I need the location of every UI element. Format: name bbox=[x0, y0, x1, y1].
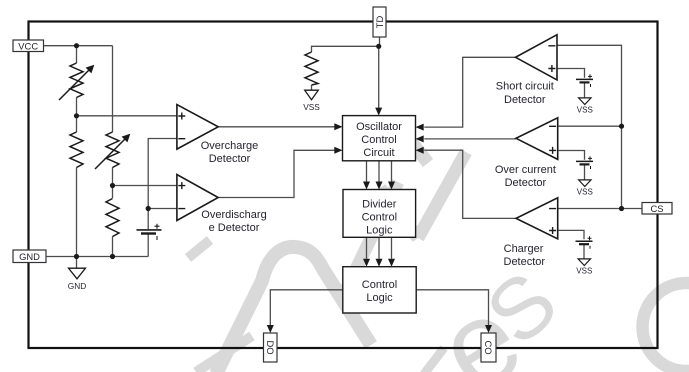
wire short circuit battery to VSS bbox=[584, 82, 586, 97]
wire VCC to column B corner bbox=[44, 45, 113, 47]
block divider control logic bbox=[343, 190, 416, 238]
svg-text:GND: GND bbox=[68, 281, 86, 291]
wire column A bottom bbox=[76, 168, 78, 257]
svg-text:Detector: Detector bbox=[505, 177, 547, 189]
svg-text:Control: Control bbox=[361, 134, 396, 146]
ground VSS (short circuit) bbox=[579, 98, 591, 105]
svg-text:Detector: Detector bbox=[209, 153, 251, 165]
svg-text:Logic: Logic bbox=[366, 225, 393, 237]
svg-text:Divider: Divider bbox=[362, 199, 397, 211]
wire overdischarge output bbox=[218, 150, 335, 197]
svg-text:VSS: VSS bbox=[303, 102, 320, 112]
resistor R3 bbox=[305, 52, 318, 85]
pin DO bbox=[264, 333, 278, 362]
arrow div-ctl 2 bbox=[376, 259, 383, 267]
wire column A mid bbox=[76, 98, 78, 133]
svg-text:GND: GND bbox=[19, 251, 40, 262]
battery B4 (charger) bbox=[576, 236, 593, 249]
block oscillator control circuit bbox=[343, 116, 416, 161]
svg-text:Control: Control bbox=[362, 279, 397, 291]
op-amp U3 short circuit bbox=[516, 35, 558, 80]
wire GND rail bbox=[46, 256, 148, 258]
svg-text:CS: CS bbox=[650, 203, 663, 214]
watermark stroke tip bbox=[188, 240, 210, 258]
resistor R1 bbox=[70, 132, 83, 168]
wire column B bottom bbox=[112, 237, 114, 257]
wire TD to R3 bbox=[312, 46, 379, 52]
svg-text:Oscillator: Oscillator bbox=[356, 121, 402, 133]
wire short circuit + input bbox=[557, 69, 585, 78]
svg-text:Detector: Detector bbox=[504, 94, 546, 106]
ground VSS (over current) bbox=[579, 180, 591, 187]
svg-text:CO: CO bbox=[483, 340, 494, 354]
arrow overdischarge to osc bbox=[334, 147, 342, 154]
ground GND symbol bbox=[69, 268, 86, 279]
op-amp U2 overdischarge bbox=[177, 175, 218, 221]
svg-text:Logic: Logic bbox=[366, 292, 393, 304]
wire charger battery to VSS bbox=[583, 244, 585, 259]
arrow overcharge to osc bbox=[334, 123, 342, 130]
node colC mid bbox=[146, 206, 151, 211]
pin CS bbox=[642, 203, 672, 215]
pin GND bbox=[13, 250, 46, 263]
wire over current battery to VSS bbox=[584, 164, 586, 179]
wire divider to control 2 bbox=[378, 237, 380, 258]
wire overdischarge - input bbox=[148, 208, 177, 210]
wire oscillator to divider 2 bbox=[378, 161, 380, 182]
svg-text:VSS: VSS bbox=[577, 188, 593, 197]
node colA mid bbox=[74, 113, 79, 118]
op-amp U1 overcharge bbox=[177, 105, 218, 150]
watermark bbox=[188, 131, 689, 372]
battery B3 (over current) bbox=[576, 156, 593, 169]
svg-text:Overdischarg: Overdischarg bbox=[201, 209, 266, 221]
wire charger + input bbox=[558, 230, 584, 239]
watermark letter U bbox=[216, 247, 371, 372]
wire overcharge output bbox=[218, 126, 335, 128]
arrow overcurrent to osc bbox=[416, 135, 424, 142]
wire column C battery bottom lead bbox=[147, 234, 149, 257]
svg-text:Control: Control bbox=[362, 212, 397, 224]
wire column C battery top lead bbox=[147, 209, 149, 230]
watermark big C arc bbox=[643, 283, 689, 371]
node TD bbox=[376, 44, 381, 49]
arrow to CO bbox=[485, 325, 492, 333]
watermark stroke i bbox=[424, 348, 444, 372]
svg-text:DO: DO bbox=[265, 340, 276, 354]
pin CO bbox=[481, 333, 496, 362]
pin TD bbox=[373, 7, 386, 37]
svg-text:VSS: VSS bbox=[577, 106, 593, 115]
svg-text:Overcharge: Overcharge bbox=[201, 140, 258, 152]
wire TD to oscillator bbox=[378, 46, 380, 108]
resistor R2 bbox=[106, 199, 119, 237]
wire divider to control 3 bbox=[391, 237, 393, 258]
svg-text:VSS: VSS bbox=[576, 267, 592, 276]
wire short circuit output bbox=[424, 57, 515, 127]
wire control to CO bbox=[416, 290, 488, 325]
op-amp U4 over current bbox=[516, 118, 558, 160]
arrowhead VR2 bbox=[122, 134, 131, 143]
resistor VR1 bbox=[59, 63, 91, 100]
arrow to DO bbox=[267, 325, 274, 333]
wire short circuit - input bbox=[557, 45, 622, 208]
node CS rail lower bbox=[619, 206, 624, 211]
arrowhead VR1 bbox=[86, 65, 95, 74]
op-amp U5 charger bbox=[516, 198, 558, 239]
node VCC-colA bbox=[74, 43, 79, 48]
node GND rail A bbox=[74, 254, 79, 259]
arrow short to osc bbox=[416, 124, 424, 131]
svg-text:Over current: Over current bbox=[495, 164, 556, 176]
wire column A top lead bbox=[76, 46, 78, 63]
pin VCC bbox=[13, 40, 44, 52]
wire overcharge - input / column C bbox=[148, 139, 177, 209]
svg-text:VCC: VCC bbox=[18, 41, 38, 52]
wire charger output bbox=[424, 150, 516, 218]
arrow TD to osc bbox=[375, 108, 382, 116]
wire over current output bbox=[424, 138, 516, 140]
wire oscillator to divider 1 bbox=[366, 161, 368, 182]
node GND rail B bbox=[110, 254, 115, 259]
wire R3 to VSS bbox=[311, 85, 313, 90]
svg-text:Charger: Charger bbox=[504, 243, 544, 255]
svg-text:Short circuit: Short circuit bbox=[496, 81, 554, 93]
svg-text:Circuit: Circuit bbox=[363, 147, 394, 159]
wire oscillator to divider 3 bbox=[391, 161, 393, 182]
battery B1 bbox=[137, 224, 162, 240]
block control logic bbox=[343, 267, 416, 313]
ground VSS (R3) bbox=[305, 90, 319, 100]
wire GND stub bbox=[76, 257, 78, 269]
wire overdischarge + input bbox=[113, 185, 177, 187]
wire divider to control 1 bbox=[366, 237, 368, 258]
wire column B top lead bbox=[112, 46, 114, 132]
wire control to DO bbox=[270, 290, 343, 325]
svg-text:e Detector: e Detector bbox=[209, 222, 260, 234]
arrow div-ctl 1 bbox=[363, 259, 370, 267]
arrow osc-div 3 bbox=[388, 182, 395, 190]
ground VSS (charger) bbox=[578, 259, 590, 266]
wire over current + input bbox=[558, 151, 585, 160]
resistor VR2 bbox=[95, 132, 127, 169]
arrow div-ctl 3 bbox=[388, 259, 395, 267]
wire overcharge + input bbox=[77, 115, 177, 117]
arrow osc-div 1 bbox=[363, 182, 370, 190]
wire charger - input / CS bbox=[558, 208, 642, 210]
arrowheads bbox=[267, 108, 492, 333]
svg-text:TD: TD bbox=[374, 16, 385, 29]
arrow osc-div 2 bbox=[376, 182, 383, 190]
wire over current - input bbox=[558, 125, 622, 127]
arrow charger to osc bbox=[416, 147, 424, 154]
node colB mid bbox=[110, 183, 115, 188]
svg-text:Detector: Detector bbox=[504, 256, 546, 268]
battery B2 (short circuit) bbox=[576, 74, 593, 87]
watermark bar lower-left bbox=[196, 336, 252, 372]
wire column B mid bbox=[112, 168, 114, 199]
node CS rail upper bbox=[619, 124, 624, 129]
watermark letter N bbox=[345, 131, 466, 292]
wire TD stub bbox=[379, 37, 381, 46]
